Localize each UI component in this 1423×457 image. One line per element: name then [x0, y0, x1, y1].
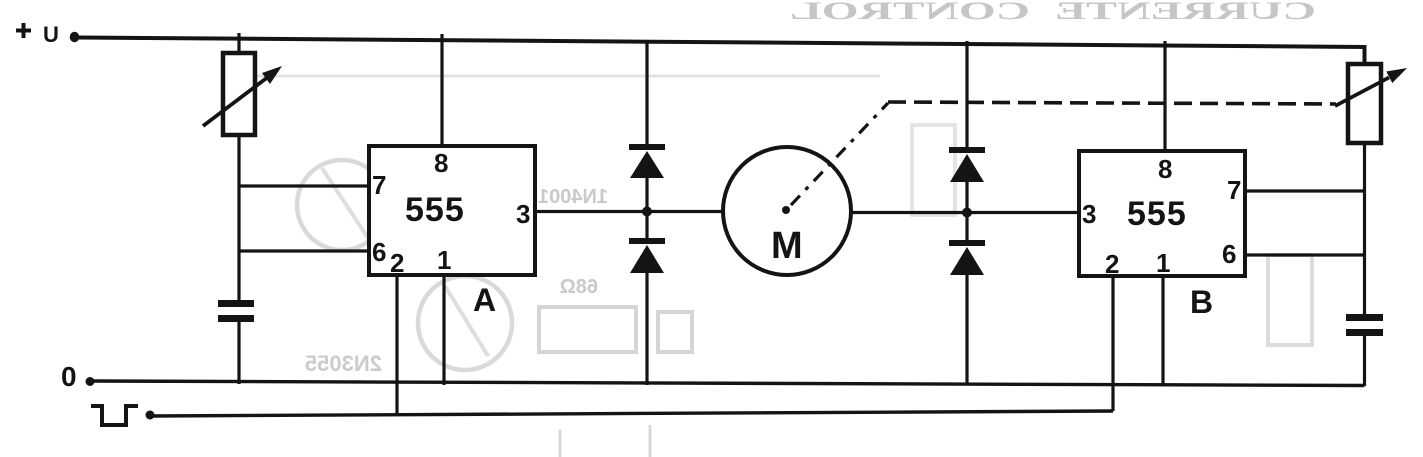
wire: U2 pin 6 to P2 wiper column	[1245, 253, 1365, 256]
svg-text:CURRENTE: CURRENTE	[1055, 0, 1316, 25]
trigger pulse symbol	[91, 406, 138, 425]
op-amp U1: timer 555 A	[369, 146, 535, 275]
wire: U2 pin 2 to trigger line	[1111, 276, 1114, 411]
wire: U1 pin 1 to 0 rail	[442, 275, 445, 385]
wire: potentiometer P1 to top rail	[237, 33, 240, 54]
node: junction U1 output / diodes	[642, 207, 652, 217]
svg-text:1: 1	[1156, 248, 1170, 278]
wire: right diode chain top	[965, 41, 968, 148]
wire: branch to U1 pin 6	[239, 249, 370, 252]
diode D4	[949, 240, 985, 275]
mechanical coupling dash-dot diagonal	[791, 103, 888, 205]
svg-text:2: 2	[390, 248, 404, 278]
wire: motor to right diode junction	[851, 211, 1079, 214]
svg-text:2: 2	[1105, 249, 1119, 279]
wire: D4 to 0 rail	[965, 275, 968, 386]
capacitor C2	[1346, 314, 1383, 336]
wire: branch to U1 pin 7	[239, 184, 370, 187]
svg-text:1: 1	[437, 245, 451, 275]
wire: D1 to D2	[645, 178, 648, 239]
wire: D3 to D4	[965, 182, 968, 241]
wire: U1 pin 8 to top rail	[440, 34, 443, 146]
wire: C1 to 0 rail	[237, 322, 240, 384]
0 rail terminal dot	[86, 377, 95, 386]
svg-text:8: 8	[434, 148, 448, 178]
svg-text:555: 555	[405, 191, 465, 229]
motor M	[723, 147, 851, 275]
wire: U2 pin 7 to P2 wiper column	[1245, 189, 1365, 192]
svg-text:B: B	[1190, 284, 1213, 320]
wire: P2 bottom to capacitor C2	[1363, 143, 1366, 315]
node +U supply label	[16, 22, 59, 47]
svg-text:2N3055: 2N3055	[305, 351, 382, 376]
node: junction U2 pin 3 / diodes	[962, 208, 972, 218]
svg-text:6: 6	[1222, 239, 1236, 269]
op-amp U2: timer 555 B	[1079, 151, 1245, 276]
wire: +U top rail	[78, 38, 1365, 65]
wire: left diode chain top	[645, 40, 648, 145]
wire: C2 to 0 rail	[1363, 336, 1366, 386]
wire: U1 pin 2 to trigger line	[395, 275, 398, 416]
wire: D2 to 0 rail	[645, 273, 648, 385]
svg-text:6: 6	[372, 237, 386, 267]
wire: U1 pin 3 to motor (output node)	[535, 210, 723, 213]
svg-text:68Ω: 68Ω	[560, 276, 598, 298]
wire: 0 rail	[90, 381, 1365, 386]
potentiometer P2 arrow	[1335, 68, 1407, 106]
capacitor C1	[218, 300, 254, 322]
wire: trigger line to pins 2	[150, 411, 1113, 416]
svg-text:1N4001: 1N4001	[538, 186, 608, 208]
svg-text:U: U	[43, 22, 59, 47]
potentiometer P1 arrow	[203, 66, 282, 126]
svg-text:M: M	[771, 225, 803, 267]
svg-text:7: 7	[1227, 175, 1241, 205]
diode D2	[629, 238, 665, 273]
svg-text:A: A	[473, 282, 496, 318]
svg-text:8: 8	[1158, 154, 1172, 184]
wire: U2 pin 8 to top rail	[1163, 41, 1166, 151]
svg-text:3: 3	[1082, 199, 1096, 229]
diode D1	[629, 144, 665, 178]
potentiometer P1 body	[223, 53, 255, 135]
trigger input terminal dot	[146, 411, 155, 420]
diode D3	[949, 147, 985, 182]
svg-text:555: 555	[1127, 195, 1187, 233]
mechanical coupling dashed horizontal to P2	[888, 102, 1336, 104]
potentiometer P2 body	[1348, 64, 1381, 143]
wire: U2 pin 1 to 0 rail	[1161, 276, 1164, 386]
svg-text:7: 7	[372, 170, 386, 200]
svg-text:CONTROL: CONTROL	[790, 0, 1030, 25]
svg-text:0: 0	[61, 361, 77, 392]
wire: P1 bottom to capacitor C1	[237, 135, 240, 301]
+U rail terminal dot	[70, 32, 80, 42]
svg-text:3: 3	[516, 199, 530, 229]
